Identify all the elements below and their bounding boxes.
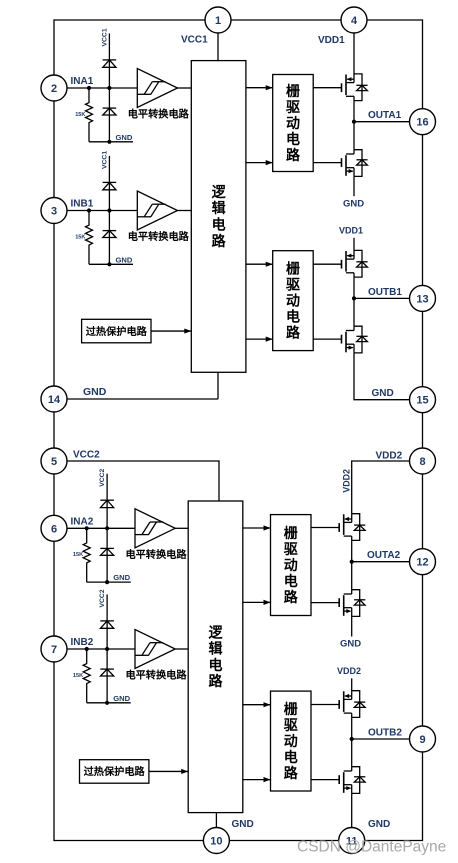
pin 4 xyxy=(341,7,367,33)
diode clamp to GND (INB1) xyxy=(103,211,117,265)
transistor Q7 (high-side MOSFET) xyxy=(311,691,352,718)
svg-text:GND: GND xyxy=(340,638,361,649)
svg-text:GND: GND xyxy=(116,255,133,264)
svg-text:VCC2: VCC2 xyxy=(73,449,100,460)
svg-text:动: 动 xyxy=(286,293,300,309)
svg-text:电平转换电路: 电平转换电路 xyxy=(125,669,187,682)
svg-text:9: 9 xyxy=(419,734,425,746)
node junction diode/ground bus (INA2) xyxy=(105,580,109,584)
svg-text:10: 10 xyxy=(210,836,222,848)
svg-text:电: 电 xyxy=(286,309,300,325)
pin 5 xyxy=(41,448,67,474)
label OUTA2 xyxy=(367,550,401,561)
svg-text:栅: 栅 xyxy=(284,701,298,717)
diode clamp to VCC2 (INA2) xyxy=(100,500,114,507)
label GND (below Q2) xyxy=(343,199,364,210)
diode clamp to VCC2 (INB2) xyxy=(100,621,114,628)
overheat protection block 1 过热保护电路 xyxy=(82,319,151,343)
label 电平转换电路 (INB2) xyxy=(125,669,187,682)
label OUTA1 xyxy=(368,110,402,121)
svg-text:电: 电 xyxy=(209,657,223,673)
label VCC2 (rotated, INB2 clamp) xyxy=(99,589,106,607)
svg-text:INA1: INA1 xyxy=(71,76,94,87)
wire local ground bus (INB2) xyxy=(87,702,131,704)
resistor R3 15K (INA2 pulldown) xyxy=(83,528,90,582)
logic block U1 逻辑电路 xyxy=(191,61,246,373)
label 栅驱动电路 (2) xyxy=(286,261,301,341)
node junction diode/ground bus (INB1) xyxy=(107,262,111,266)
label 电平转换电路 (INB1) xyxy=(128,230,190,243)
schmitt trigger buffer (INA2 level shift) xyxy=(135,509,175,548)
svg-text:VCC2: VCC2 xyxy=(99,589,106,607)
svg-text:驱: 驱 xyxy=(286,277,300,293)
node junction INB2/clamp diodes xyxy=(105,647,109,651)
label VDD1 (pin 4) xyxy=(318,35,345,46)
label 电平转换电路 (INA2) xyxy=(125,548,187,561)
svg-text:12: 12 xyxy=(416,557,428,569)
wire VCC2 from pin 5 to logic block 2 xyxy=(54,461,219,502)
svg-text:逻: 逻 xyxy=(212,184,227,200)
svg-text:GND: GND xyxy=(113,694,130,703)
svg-text:过热保护电路: 过热保护电路 xyxy=(86,325,148,338)
node OUTA1 xyxy=(352,120,356,124)
wire schmitt output to logic block (INB1) xyxy=(178,210,192,212)
label 栅驱动电路 (3) xyxy=(284,525,299,605)
label 电平转换电路 (INA1) xyxy=(128,108,190,121)
wire/arrow overheat block 1 to logic xyxy=(151,328,191,333)
wire/arrow logic to gate block 2 (upper) xyxy=(246,262,273,267)
overheat protection block 2 过热保护电路 xyxy=(80,760,149,784)
label INA2 xyxy=(71,517,94,528)
svg-text:6: 6 xyxy=(51,523,57,535)
pin 10 xyxy=(203,828,229,854)
label GND (pin 14) xyxy=(83,386,107,398)
svg-text:动: 动 xyxy=(284,557,298,573)
wire schmitt output to logic block (INA1) xyxy=(178,87,192,89)
wire local ground bus (INB1) xyxy=(89,263,133,265)
pin 13 xyxy=(410,285,436,311)
label 逻辑电路 (U1) xyxy=(212,184,227,249)
wire left rail xyxy=(53,19,55,841)
label GND (local, INA1) xyxy=(116,133,133,142)
node junction INA1/resistor xyxy=(87,86,91,90)
svg-text:15K: 15K xyxy=(75,234,85,240)
svg-text:路: 路 xyxy=(286,325,301,341)
label 栅驱动电路 (1) xyxy=(286,83,301,163)
svg-text:15K: 15K xyxy=(73,673,83,679)
wire/arrow logic to gate block 1 (upper) xyxy=(246,85,273,90)
transistor Q1 (high-side MOSFET) xyxy=(313,74,354,101)
wire/arrow logic to gate block 2 (lower) xyxy=(246,337,273,342)
label 15K (R3) xyxy=(73,552,83,558)
wire clamp-up branch to VCC1 (INB1) xyxy=(108,156,110,211)
label 逻辑电路 (U2) xyxy=(209,624,224,689)
svg-text:1: 1 xyxy=(215,15,221,27)
svg-text:16: 16 xyxy=(416,117,428,129)
pin 14 xyxy=(41,386,67,412)
wire OUTB2 to pin xyxy=(352,738,423,740)
svg-text:栅: 栅 xyxy=(286,261,300,277)
svg-text:CSDN @DantePayne: CSDN @DantePayne xyxy=(297,839,446,856)
body diode of Q1 xyxy=(354,74,368,101)
svg-text:13: 13 xyxy=(416,293,428,305)
wire pin 4 to Q1 drain xyxy=(353,32,355,74)
gate drive block 1 栅驱动电路 xyxy=(273,75,314,172)
wire pin 8 VDD2 to Q5 drain xyxy=(352,461,423,514)
svg-text:逻: 逻 xyxy=(209,624,224,640)
svg-text:15K: 15K xyxy=(73,552,83,558)
pin 3 xyxy=(41,198,67,224)
svg-text:辑: 辑 xyxy=(212,200,226,216)
label GND (pin 10) xyxy=(232,819,254,830)
wire/arrow overheat block 2 to logic xyxy=(149,769,188,774)
resistor R2 15K (INB1 pulldown) xyxy=(86,211,93,265)
svg-text:VDD2: VDD2 xyxy=(342,469,352,493)
wire/arrow logic to gate block 1 (lower) xyxy=(246,160,273,165)
svg-text:GND: GND xyxy=(116,133,133,142)
node junction INB1/clamp diodes xyxy=(107,208,111,212)
wire OUTA2 to pin xyxy=(352,561,423,563)
pin 1 xyxy=(205,7,231,33)
pin 15 xyxy=(410,387,436,413)
schmitt trigger buffer (INA1 level shift) xyxy=(137,69,177,108)
wire pin1 to logic block 1 xyxy=(217,32,219,61)
svg-text:GND: GND xyxy=(83,386,107,398)
pin 6 xyxy=(41,515,67,541)
wire input INB2 from pin to schmitt trigger xyxy=(54,648,135,650)
pin 8 xyxy=(410,448,436,474)
wire/arrow logic to gate block 4 (lower) xyxy=(243,777,271,782)
wire Q8 source to pin 11 xyxy=(351,793,353,828)
wire/arrow logic to gate block 3 (lower) xyxy=(243,600,271,605)
label GND (local, INB1) xyxy=(116,255,133,264)
pin 2 xyxy=(41,75,67,101)
label INA1 xyxy=(71,76,94,87)
svg-text:OUTA1: OUTA1 xyxy=(368,110,402,121)
logic block U2 逻辑电路 xyxy=(188,501,243,813)
node junction diode/ground bus (INA1) xyxy=(107,140,111,144)
svg-text:VDD2: VDD2 xyxy=(337,666,361,676)
svg-text:2: 2 xyxy=(51,83,57,95)
label VDD1 (above Q3) xyxy=(339,226,363,236)
svg-text:VCC1: VCC1 xyxy=(181,35,208,46)
body diode of Q8 xyxy=(352,767,366,794)
svg-text:INB1: INB1 xyxy=(71,199,94,210)
wire Q2 source to GND stub xyxy=(353,176,355,196)
label VCC2 (pin 5) xyxy=(73,449,100,460)
wire input INA2 from pin to schmitt trigger xyxy=(54,527,135,529)
pin 11 xyxy=(339,828,365,854)
svg-text:15: 15 xyxy=(416,395,428,407)
label VCC1 (rotated, INB1 clamp) xyxy=(101,151,108,169)
body diode of Q2 xyxy=(354,150,368,177)
svg-text:8: 8 xyxy=(419,456,425,468)
svg-text:路: 路 xyxy=(209,673,224,689)
label GND (pin 11) xyxy=(368,819,390,830)
svg-text:7: 7 xyxy=(51,644,57,656)
svg-text:驱: 驱 xyxy=(284,541,298,557)
wire OUTB2 half-bridge mid xyxy=(351,717,353,766)
svg-text:3: 3 xyxy=(51,206,57,218)
label GND (local, INA2) xyxy=(113,573,130,582)
pin 12 xyxy=(410,549,436,575)
gate drive block 2 栅驱动电路 xyxy=(273,251,314,351)
label GND (pin 15) xyxy=(372,388,394,399)
body diode of Q6 xyxy=(352,590,366,617)
wire schmitt output to logic block (INA2) xyxy=(175,527,188,529)
transistor Q5 (high-side MOSFET) xyxy=(311,514,352,541)
svg-text:栅: 栅 xyxy=(284,525,298,541)
svg-text:过热保护电路: 过热保护电路 xyxy=(84,765,146,778)
svg-text:路: 路 xyxy=(284,765,299,781)
wire logic1 bottom stub to GND bus xyxy=(54,372,218,399)
svg-text:INA2: INA2 xyxy=(71,517,94,528)
wire clamp-up branch to VCC1 (INA1) xyxy=(108,33,110,88)
body diode of Q7 xyxy=(352,691,366,718)
schmitt trigger buffer (INB1 level shift) xyxy=(137,191,177,230)
diode clamp to VCC1 (INA1) xyxy=(103,60,117,67)
svg-text:电: 电 xyxy=(284,749,298,765)
diode clamp to VCC1 (INB1) xyxy=(103,182,117,189)
label INB1 xyxy=(71,199,94,210)
pin 16 xyxy=(410,109,436,135)
wire input INB1 from pin to schmitt trigger xyxy=(54,210,137,212)
wire local ground bus (INA2) xyxy=(87,581,131,583)
label 15K (R4) xyxy=(73,673,83,679)
svg-text:驱: 驱 xyxy=(284,717,298,733)
node OUTB2 xyxy=(350,737,354,741)
svg-text:OUTB2: OUTB2 xyxy=(368,727,402,738)
label INB2 xyxy=(71,637,94,648)
wire clamp-up branch to VCC2 (INB2) xyxy=(106,594,108,649)
wire OUTA2 half-bridge mid xyxy=(351,540,353,589)
label 栅驱动电路 (4) xyxy=(284,701,299,781)
node OUTA2 xyxy=(350,560,354,564)
svg-text:动: 动 xyxy=(284,733,298,749)
wire bottom rail (GND row) xyxy=(54,840,423,842)
label 过热保护电路 (1) xyxy=(86,325,148,338)
resistor R1 15K (INA1 pulldown) xyxy=(86,88,93,142)
svg-text:VDD2: VDD2 xyxy=(376,451,403,462)
svg-text:VCC1: VCC1 xyxy=(101,28,108,46)
svg-text:VDD1: VDD1 xyxy=(339,226,363,236)
wire right rail xyxy=(422,19,424,841)
svg-text:4: 4 xyxy=(351,15,358,27)
svg-text:路: 路 xyxy=(284,589,299,605)
pin 9 xyxy=(410,726,436,752)
svg-text:GND: GND xyxy=(372,388,394,399)
svg-text:VDD1: VDD1 xyxy=(318,35,345,46)
label VCC1 (pin 1) xyxy=(181,35,208,46)
svg-text:OUTB1: OUTB1 xyxy=(368,287,402,298)
wire Q4 source to pin 15 (GND) xyxy=(354,353,423,400)
node junction INA2/resistor xyxy=(85,526,89,530)
svg-text:栅: 栅 xyxy=(286,83,300,99)
node OUTB1 xyxy=(352,296,356,300)
svg-text:电平转换电路: 电平转换电路 xyxy=(128,230,190,243)
svg-text:INB2: INB2 xyxy=(71,637,94,648)
svg-text:电平转换电路: 电平转换电路 xyxy=(125,548,187,561)
label OUTB1 xyxy=(368,287,402,298)
transistor Q6 (low-side MOSFET) xyxy=(311,590,352,617)
svg-text:路: 路 xyxy=(286,147,301,163)
svg-text:GND: GND xyxy=(368,819,390,830)
wire OUTB1 half-bridge mid xyxy=(353,277,355,326)
wire Q6 source to GND stub xyxy=(351,616,353,636)
wire local ground bus (INA1) xyxy=(89,141,133,143)
label OUTB2 xyxy=(368,727,402,738)
node junction INA1/clamp diodes xyxy=(107,86,111,90)
label GND (local, INB2) xyxy=(113,694,130,703)
watermark CSDN @DantePayne xyxy=(297,839,446,856)
svg-text:5: 5 xyxy=(51,456,57,468)
svg-text:电: 电 xyxy=(212,217,226,233)
svg-text:14: 14 xyxy=(48,394,61,406)
diode clamp to GND (INB2) xyxy=(100,649,114,703)
label VDD2 (above Q7) xyxy=(337,666,361,676)
svg-text:路: 路 xyxy=(212,233,227,249)
svg-text:GND: GND xyxy=(113,573,130,582)
svg-text:GND: GND xyxy=(343,199,364,210)
diode clamp to GND (INA1) xyxy=(103,88,117,142)
wire OUTA1 to pin xyxy=(354,121,423,123)
label 过热保护电路 (2) xyxy=(84,765,146,778)
transistor Q3 (high-side MOSFET) xyxy=(313,250,354,277)
gate drive block 3 栅驱动电路 xyxy=(271,515,312,616)
body diode of Q5 xyxy=(352,514,366,541)
label VDD2 (rotated, Q5 drain) xyxy=(342,469,352,493)
schmitt trigger buffer (INB2 level shift) xyxy=(135,630,175,669)
wire VDD2 stub to Q7 drain xyxy=(351,678,353,691)
node junction INA2/clamp diodes xyxy=(105,526,109,530)
label 15K (R2) xyxy=(75,234,85,240)
label VDD2 (pin 8) xyxy=(376,451,403,462)
transistor Q4 (low-side MOSFET) xyxy=(313,326,354,353)
node junction INB1/resistor xyxy=(87,208,91,212)
wire VDD1 stub to Q3 drain xyxy=(353,238,355,251)
label 15K (R1) xyxy=(75,112,85,118)
transistor Q2 (low-side MOSFET) xyxy=(313,150,354,177)
gate drive block 4 栅驱动电路 xyxy=(271,691,312,791)
body diode of Q3 xyxy=(354,250,368,277)
wire OUTB1 to pin xyxy=(354,297,423,299)
svg-text:VCC2: VCC2 xyxy=(99,468,106,486)
svg-text:GND: GND xyxy=(232,819,254,830)
wire OUTA1 half-bridge mid xyxy=(353,101,355,150)
svg-text:电: 电 xyxy=(284,573,298,589)
body diode of Q4 xyxy=(354,326,368,353)
diode clamp to GND (INA2) xyxy=(100,528,114,582)
node junction INB2/resistor xyxy=(85,647,89,651)
svg-text:辑: 辑 xyxy=(209,641,223,657)
wire schmitt output to logic block (INB2) xyxy=(175,648,188,650)
svg-text:驱: 驱 xyxy=(286,99,300,115)
wire top rail (VCC1/VDD1 row) xyxy=(54,19,423,21)
svg-text:VCC1: VCC1 xyxy=(101,151,108,169)
resistor R4 15K (INB2 pulldown) xyxy=(83,649,90,703)
label VCC1 (rotated, INA1 clamp) xyxy=(101,28,108,46)
label GND (below Q6) xyxy=(340,638,361,649)
wire clamp-up branch to VCC2 (INA2) xyxy=(106,474,108,529)
svg-text:电: 电 xyxy=(286,131,300,147)
svg-text:电平转换电路: 电平转换电路 xyxy=(128,108,190,121)
wire/arrow logic to gate block 3 (upper) xyxy=(243,525,271,530)
transistor Q8 (low-side MOSFET) xyxy=(311,767,352,794)
wire logic2 bottom stub to pin 10 xyxy=(215,813,217,828)
label VCC2 (rotated, INA2 clamp) xyxy=(99,468,106,486)
wire input INA1 from pin to schmitt trigger xyxy=(54,87,137,89)
node junction diode/ground bus (INB2) xyxy=(105,701,109,705)
svg-text:OUTA2: OUTA2 xyxy=(367,550,401,561)
pin 7 xyxy=(41,636,67,662)
svg-text:动: 动 xyxy=(286,115,300,131)
wire/arrow logic to gate block 4 (upper) xyxy=(243,702,271,707)
svg-text:15K: 15K xyxy=(75,112,85,118)
